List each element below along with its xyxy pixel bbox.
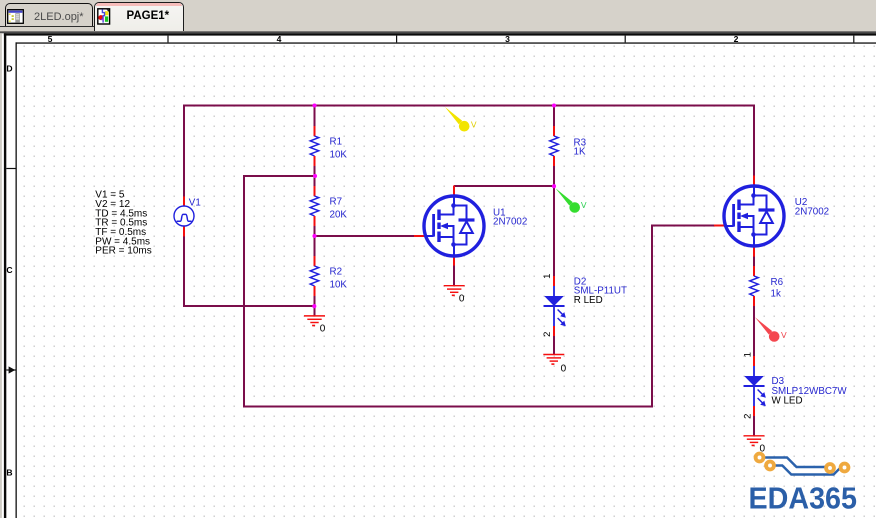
svg-text:EDA365: EDA365 xyxy=(749,481,858,515)
svg-text:R2: R2 xyxy=(330,266,343,277)
svg-text:V1: V1 xyxy=(189,198,201,209)
svg-text:V: V xyxy=(471,119,477,129)
resistor R7 xyxy=(310,186,319,226)
wire D2 to ground xyxy=(553,336,555,355)
LED diode D3 SMLP12WBC7W xyxy=(744,356,766,416)
ground 0 symbol G4 under D3 xyxy=(744,436,766,455)
ground 0 symbol G2 under U1 xyxy=(444,286,465,305)
wire node A down xyxy=(243,175,245,408)
svg-text:2N7002: 2N7002 xyxy=(795,207,829,218)
pin stub V1 pin+ xyxy=(183,196,185,206)
voltage probe marker red V marker xyxy=(755,317,787,342)
wire rail to R1 xyxy=(314,106,316,127)
svg-text:2: 2 xyxy=(542,332,553,337)
wire R7 bottom xyxy=(314,226,316,236)
wire top rail xyxy=(184,105,754,107)
junction rail/R1 xyxy=(312,103,316,107)
wire R2 top xyxy=(314,236,316,256)
svg-text:2N7002: 2N7002 xyxy=(493,217,527,228)
svg-text:R LED: R LED xyxy=(574,295,603,306)
junction node A xyxy=(313,174,317,178)
wire node A left xyxy=(243,175,316,177)
label V1 reference xyxy=(189,198,201,209)
wire U1 source to ground xyxy=(453,265,455,286)
svg-text:V: V xyxy=(581,200,587,210)
page outer border top xyxy=(4,33,876,35)
resistor R2 xyxy=(310,256,319,296)
wire U2 gate run xyxy=(651,225,714,227)
wire U2 to R6 xyxy=(753,256,755,266)
page tab icon xyxy=(97,8,111,25)
ruler tick top 1 xyxy=(167,36,168,43)
svg-text:3: 3 xyxy=(505,34,510,44)
label D2 name xyxy=(574,277,627,306)
ruler tick top 3 xyxy=(625,36,626,43)
left window margin xyxy=(0,33,2,518)
junction R3/U1 drain/D2 xyxy=(552,184,556,188)
svg-text:W LED: W LED xyxy=(772,396,803,407)
LED diode D2 SML-P11UT xyxy=(544,276,566,336)
pin stub V1 pin- xyxy=(183,226,185,237)
svg-text:R6: R6 xyxy=(771,277,784,288)
pin stub U2 gate pin xyxy=(714,225,724,227)
svg-text:1: 1 xyxy=(742,352,753,357)
pin stub U2 drain pin xyxy=(753,176,755,187)
svg-text:5: 5 xyxy=(48,34,53,44)
wire up to U2 gate xyxy=(651,225,653,408)
svg-text:10K: 10K xyxy=(330,280,348,291)
wire node A bottom run xyxy=(243,406,653,408)
pin stub U1 source pin xyxy=(453,256,455,266)
ruler inner border horizontal xyxy=(16,42,876,43)
wire R7 top xyxy=(314,176,316,186)
svg-text:C: C xyxy=(6,265,12,275)
ruler tick top 4 xyxy=(853,36,854,43)
svg-text:V: V xyxy=(781,330,787,340)
ruler tick top 2 xyxy=(396,36,397,43)
label R7 value xyxy=(330,196,348,220)
label D3 name xyxy=(772,376,848,407)
junction node B xyxy=(312,234,316,238)
label R6 value xyxy=(771,277,784,299)
window chrome bands under tab bar xyxy=(0,29,876,31)
resistor R6 xyxy=(750,266,759,306)
label R3 value xyxy=(574,137,587,157)
page outer border left xyxy=(4,33,6,518)
svg-text:PER = 10ms: PER = 10ms xyxy=(95,246,151,257)
wire rail to R3 xyxy=(553,106,555,127)
label U1 name xyxy=(493,207,527,227)
ground 0 symbol G3 under D2 xyxy=(543,355,566,375)
junction ground node G1 xyxy=(312,304,316,308)
svg-text:10K: 10K xyxy=(330,150,348,161)
svg-text:R1: R1 xyxy=(330,136,343,147)
ground 0 symbol G1 under R2 xyxy=(304,316,326,335)
wire junction to D2 xyxy=(553,185,555,276)
svg-text:0: 0 xyxy=(459,293,465,304)
svg-text:2: 2 xyxy=(734,34,739,44)
label V1 parameters xyxy=(95,190,151,257)
EDA365 logo pads xyxy=(756,454,849,472)
resistor R3 xyxy=(550,126,559,166)
wire rail to U2 xyxy=(753,105,755,177)
svg-text:0: 0 xyxy=(320,323,326,334)
svg-text:B: B xyxy=(6,467,12,477)
label R1 value xyxy=(330,136,348,160)
label R2 value xyxy=(330,266,348,290)
ruler tick left 1 xyxy=(6,168,15,169)
wire node B to U1 gate xyxy=(315,235,415,237)
wire U1 drain run xyxy=(454,185,555,187)
svg-text:0: 0 xyxy=(561,364,567,375)
ruler tick left 2 with cursor arrow xyxy=(6,369,15,370)
svg-text:4: 4 xyxy=(277,34,282,44)
label U2 name xyxy=(795,197,829,218)
wire R3 to junction xyxy=(553,166,555,186)
wire V1 bottom xyxy=(183,236,185,307)
voltage probe marker yellow V marker xyxy=(445,107,477,132)
wire ground stub G1 xyxy=(314,306,316,316)
svg-text:20K: 20K xyxy=(330,210,348,221)
svg-text:2: 2 xyxy=(742,414,753,419)
wire V1 top xyxy=(183,105,185,197)
voltage probe marker green V marker xyxy=(556,188,587,213)
voltage source V1 VPULSE xyxy=(174,206,194,226)
svg-text:R7: R7 xyxy=(330,196,343,207)
pin stub U1 drain pin xyxy=(453,186,455,197)
wire R1 to node A xyxy=(314,166,316,177)
junction rail/R3 xyxy=(552,103,556,107)
wire R6 to D3 xyxy=(753,306,755,356)
ruler inner border vertical xyxy=(16,42,17,518)
pin stub U1 gate pin xyxy=(414,235,424,237)
svg-text:D: D xyxy=(6,63,12,73)
transistor U2 2N7002 (NMOS with body diode) xyxy=(724,186,784,246)
project tab icon xyxy=(7,9,24,24)
wire V1 to ground junction xyxy=(183,305,315,307)
wire D3 to ground xyxy=(753,416,755,436)
svg-text:1: 1 xyxy=(542,274,553,279)
EDA365 logo traces xyxy=(764,458,841,475)
svg-text:1k: 1k xyxy=(771,288,781,299)
resistor R1 xyxy=(310,126,319,166)
transistor U1 2N7002 (NMOS with body diode) xyxy=(424,196,484,256)
svg-text:1K: 1K xyxy=(574,147,586,158)
pin stub U2 source pin xyxy=(753,246,755,257)
wire R2 bottom xyxy=(314,296,316,306)
